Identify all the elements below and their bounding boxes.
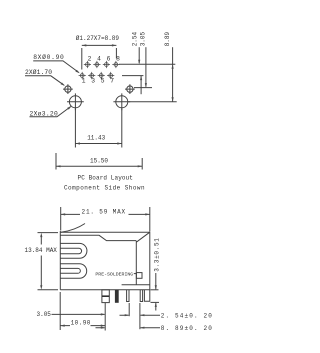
ext line bottom pin row right	[122, 75, 143, 77]
rotated dim 3.05	[139, 31, 146, 46]
ext line 2.54 left	[128, 303, 130, 316]
spring hairpin 1 inner	[60, 248, 81, 253]
svg-text:11.43: 11.43	[87, 135, 105, 142]
pin number 2	[88, 56, 92, 63]
arrow right 1.27	[112, 44, 117, 46]
pin 4 pad	[93, 61, 100, 68]
shield post white	[102, 290, 109, 303]
label 2X D1.70	[25, 68, 52, 76]
ext line top 13.84	[38, 232, 59, 234]
spring hairpin 2 outer	[60, 264, 86, 278]
pin 1 pad	[79, 72, 86, 79]
dim line 2.54 upper	[138, 47, 140, 63]
svg-text:3.3±0.51: 3.3±0.51	[153, 237, 160, 271]
svg-text:Component Side Shown: Component Side Shown	[64, 185, 145, 192]
dim 3.3+-0.51 rotated	[153, 237, 160, 271]
pin number 8	[116, 56, 120, 63]
title line 2	[64, 185, 145, 192]
pin 8 pad	[112, 61, 119, 68]
ext line body left bottom	[59, 292, 61, 330]
pin 2 pad	[84, 61, 91, 68]
title line 1	[78, 175, 134, 182]
ext line pin8 top	[115, 48, 117, 59]
svg-text:8XØ0.90: 8XØ0.90	[33, 53, 64, 61]
svg-text:4: 4	[97, 56, 101, 63]
pin 6 pad	[103, 61, 110, 68]
ext line post 10.90	[104, 303, 106, 331]
ext line pin1 top	[81, 48, 83, 70]
svg-text:PRE-SOLDERING: PRE-SOLDERING	[95, 271, 133, 277]
pin number 6	[107, 56, 111, 63]
label 2X D3.20	[30, 110, 59, 117]
hole 3.20 left	[67, 93, 84, 110]
dim 13.84 line upper	[40, 235, 42, 245]
ext line top pin row right	[119, 63, 175, 65]
dim 10.90	[71, 319, 91, 326]
svg-text:2.54: 2.54	[131, 31, 138, 46]
ext line 1.70 hole row right	[134, 87, 152, 89]
pin number 7	[110, 78, 114, 85]
dim 21.59 MAX	[82, 209, 127, 216]
chamfer corner	[136, 232, 150, 285]
shield post band	[102, 295, 109, 297]
pin number 3	[91, 78, 95, 85]
hole 1.70 left	[63, 84, 73, 94]
dim line 8.89 vertical	[172, 47, 174, 102]
label 8X D0.90	[33, 53, 64, 61]
svg-text:3.05: 3.05	[139, 31, 146, 46]
hole 1.70 right	[125, 84, 135, 94]
dim text D1.27X7=8.89	[76, 35, 120, 42]
spring hairpin 1 outer	[60, 243, 87, 258]
ext line 3.20 hole row right	[128, 101, 177, 103]
svg-text:PC Board Layout: PC Board Layout	[78, 175, 134, 182]
dim line 1.27x7	[82, 44, 117, 46]
dim 13.84 line lower	[40, 256, 42, 288]
3.3 dim upper arrow	[155, 273, 157, 289]
hole 3.20 right	[113, 93, 130, 110]
svg-text:21. 59 MAX: 21. 59 MAX	[82, 209, 127, 216]
svg-text:2. 54±0. 20: 2. 54±0. 20	[161, 312, 213, 319]
pre-soldering label	[95, 271, 133, 277]
dim line 3.05	[145, 47, 147, 87]
svg-text:3.05: 3.05	[37, 311, 52, 318]
pin number 5	[101, 78, 105, 85]
dim 13.84 MAX text	[25, 247, 58, 254]
3.3 dim lower arrow	[155, 303, 157, 311]
rotated dim 8.89	[164, 31, 171, 46]
pin 3 pad	[88, 72, 95, 79]
ext line left 21.59	[60, 207, 62, 231]
inner seam line	[60, 235, 136, 240]
step line bottom right	[122, 284, 150, 286]
svg-text:10.90: 10.90	[71, 319, 91, 326]
svg-text:8. 89±0. 20: 8. 89±0. 20	[161, 325, 213, 332]
latch curve	[61, 224, 85, 233]
ext line right 21.59	[149, 207, 151, 232]
pin 5 pad	[98, 72, 105, 79]
dim 11.43	[87, 135, 105, 142]
svg-text:15.50: 15.50	[90, 157, 108, 164]
ext line bottom 13.84	[38, 289, 59, 291]
svg-text:Ø1.27X7=8.89: Ø1.27X7=8.89	[76, 35, 120, 42]
thin pin b	[140, 290, 142, 302]
black pin	[115, 290, 119, 303]
svg-text:2: 2	[88, 56, 92, 63]
rotated dim 2.54	[131, 31, 138, 46]
spring hairpin 2 inner	[60, 268, 80, 273]
ext line body bottom right	[151, 289, 159, 291]
pre-soldering square	[136, 273, 142, 279]
dim 3.05 bottom	[37, 311, 52, 318]
dim line 2.54 lower stub with up arrow	[140, 76, 142, 94]
dim 2.54+-0.20	[161, 312, 213, 319]
ext line leg bottom right	[151, 301, 160, 303]
arrow left 1.27	[82, 44, 87, 46]
dim 15.50	[90, 157, 108, 164]
pin number 4	[97, 56, 101, 63]
thin pin a	[127, 290, 129, 302]
svg-text:8.89: 8.89	[164, 31, 171, 46]
svg-text:13.84 MAX: 13.84 MAX	[25, 247, 58, 254]
pin number 1	[82, 78, 86, 85]
svg-text:8: 8	[116, 56, 120, 63]
svg-text:2XØ1.70: 2XØ1.70	[25, 68, 52, 76]
right leg	[144, 290, 149, 302]
body outline	[60, 231, 150, 290]
ext line 2.54 right	[139, 303, 141, 329]
dim 8.89+-0.20	[161, 325, 213, 332]
pin 7 pad	[107, 72, 114, 79]
svg-text:6: 6	[107, 56, 111, 63]
